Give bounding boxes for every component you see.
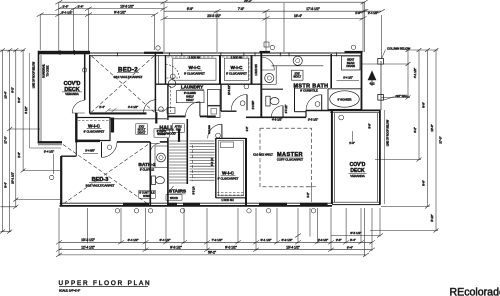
deck (lower) bottom rail	[332, 201, 381, 203]
svg-text:2'-6": 2'-6"	[63, 4, 69, 8]
svg-text:2'-8": 2'-8"	[336, 238, 342, 242]
svg-text:RAILING: RAILING	[208, 125, 211, 134]
svg-text:BED-3: BED-3	[92, 177, 109, 183]
column edge upper right	[380, 61, 382, 110]
closet inner rects	[173, 58, 216, 80]
top exterior wall lines	[90, 52, 362, 54]
top dimension tier A overall 29'-2"	[55, 0, 367, 4]
svg-text:5'-4": 5'-4"	[4, 182, 8, 188]
svg-text:6'-2": 6'-2"	[413, 127, 417, 133]
bed2 left double wall	[84, 53, 86, 100]
svg-text:8'-5 1/2": 8'-5 1/2"	[350, 231, 361, 235]
deck bottom wall	[38, 141, 62, 143]
svg-text:VERANDA: VERANDA	[350, 174, 365, 178]
svg-text:8' CLG/CARPET: 8' CLG/CARPET	[184, 72, 205, 76]
svg-text:W-I-C: W-I-C	[222, 171, 235, 176]
svg-text:SCALE: 1/4"=1'-0": SCALE: 1/4"=1'-0"	[59, 288, 80, 292]
top wall window jambs	[117, 52, 119, 56]
deck door from bed2	[72, 101, 85, 114]
svg-text:3'-4 1/2": 3'-4 1/2"	[343, 76, 353, 80]
wic-bed3 right thick wall	[111, 118, 114, 133]
bottom dimension tiers	[59, 236, 380, 255]
svg-text:10'-3 1/2": 10'-3 1/2"	[81, 238, 94, 242]
svg-text:27'-0": 27'-0"	[4, 136, 8, 143]
deck right wall	[379, 110, 381, 205]
bench box landing	[221, 142, 234, 148]
svg-text:9'-0 1/2": 9'-0 1/2"	[225, 245, 237, 249]
svg-text:8' CLG/CARPET: 8' CLG/CARPET	[218, 177, 239, 181]
svg-text:8' CLG/CARPET: 8' CLG/CARPET	[226, 72, 247, 76]
svg-text:1 ROD SH: 1 ROD SH	[221, 198, 233, 202]
bed3 vault X	[63, 145, 148, 205]
svg-text:2'-0": 2'-0"	[349, 141, 355, 145]
top extension lines	[40, 2, 381, 58]
svg-text:2'-0 5/8": 2'-0 5/8"	[252, 100, 255, 109]
master right wall	[331, 110, 333, 204]
furnace circle	[168, 80, 176, 88]
svg-text:6' SOAKER: 6' SOAKER	[338, 97, 352, 101]
deck left guardrail wall	[38, 51, 40, 144]
bath2 door	[150, 144, 160, 154]
svg-text:8' CLG/TILE: 8' CLG/TILE	[140, 168, 154, 172]
svg-text:WOOD: WOOD	[157, 133, 165, 136]
toilet nook door	[271, 106, 283, 118]
closet divider wall	[219, 55, 221, 84]
svg-text:1 ROD SH: 1 ROD SH	[255, 64, 258, 76]
master coffered ceiling dashed rect	[260, 128, 311, 187]
svg-text:W-I-C: W-I-C	[88, 124, 101, 129]
svg-text:13'-6 1/2": 13'-6 1/2"	[120, 4, 133, 8]
svg-text:7'-8": 7'-8"	[238, 7, 244, 11]
wood box bottom	[166, 195, 182, 201]
closet2 right wall	[251, 55, 253, 84]
svg-text:1 ROD SH: 1 ROD SH	[189, 57, 201, 60]
svg-text:STAIRS: STAIRS	[169, 189, 187, 195]
top dimension tier B	[55, 7, 167, 11]
bottom extension lines	[59, 208, 380, 256]
deck 2-0 dim leader	[352, 131, 354, 142]
svg-text:7'-3 1/2": 7'-3 1/2"	[212, 238, 223, 242]
laundry shelf boxes	[176, 91, 204, 103]
svg-text:CLG 9/12 VAULT: CLG 9/12 VAULT	[253, 153, 273, 157]
mstr bath entry door	[261, 57, 274, 70]
svg-text:FAN: FAN	[176, 129, 181, 132]
svg-text:2'-4": 2'-4"	[99, 105, 105, 109]
line of roof below (left)	[29, 53, 31, 148]
toilet nook wall	[261, 88, 283, 90]
svg-text:13'-6": 13'-6"	[430, 124, 434, 131]
coffer corner dim line	[310, 187, 312, 202]
svg-text:LINE OF ROOF BELOW: LINE OF ROOF BELOW	[387, 119, 390, 146]
svg-text:8' CLG/CARPET: 8' CLG/CARPET	[84, 130, 105, 134]
mstr toilet	[266, 96, 270, 106]
bed3 side dim leader	[53, 154, 55, 174]
top dimension tier C	[164, 9, 385, 13]
bed2 right wall	[154, 53, 156, 113]
laundry cabinet strip	[170, 86, 172, 112]
master entry door	[306, 95, 322, 111]
svg-text:6'-1 1/2": 6'-1 1/2"	[261, 238, 272, 242]
svg-text:8'-4": 8'-4"	[350, 238, 356, 242]
attic fan box	[172, 124, 184, 133]
cov'd deck (lower) top wall	[330, 109, 381, 111]
svg-text:COFF CLG/CARPET: COFF CLG/CARPET	[277, 158, 304, 162]
bath2 counter	[155, 146, 168, 168]
mstr bath bottom wall	[246, 116, 306, 118]
svg-text:UPPER FLOOR PLAN: UPPER FLOOR PLAN	[59, 280, 152, 287]
svg-text:8'-5 1/4: 8'-5 1/4	[210, 157, 214, 166]
svg-text:1 ROD SH: 1 ROD SH	[231, 57, 243, 60]
master wic top/bottom	[216, 137, 246, 139]
svg-text:59'-2": 59'-2"	[208, 251, 216, 255]
wic-bed3 box	[77, 118, 111, 141]
keynote box above mstr bath	[264, 42, 269, 47]
svg-text:8'-3 1/2": 8'-3 1/2"	[282, 238, 293, 242]
svg-text:8'-0": 8'-0"	[17, 97, 21, 103]
mstr bath sink 2	[265, 73, 274, 82]
svg-text:6'-9": 6'-9"	[187, 7, 193, 11]
landing door leaf	[246, 95, 248, 111]
svg-text:8'-9": 8'-9"	[422, 180, 426, 186]
linen box	[154, 129, 170, 137]
stairs treads lower flight	[169, 141, 187, 183]
deck rail posts	[59, 50, 61, 55]
bottom exterior wall	[60, 202, 333, 204]
laundry left wall	[167, 84, 169, 120]
svg-text:3'-4 5/8": 3'-4 5/8"	[85, 148, 95, 152]
bath2 toilet	[152, 176, 156, 185]
svg-text:29'-2": 29'-2"	[244, 0, 252, 3]
svg-text:SHWR: SHWR	[143, 195, 151, 198]
closet1 left wall	[165, 55, 167, 84]
svg-text:5'-0": 5'-0"	[369, 123, 372, 128]
svg-text:5 1/2": 5 1/2"	[24, 106, 28, 113]
window/door tag circles	[50, 45, 356, 213]
svg-text:LAUNDRY: LAUNDRY	[181, 84, 203, 89]
bed3 entry door	[102, 142, 118, 158]
svg-text:W-I-C: W-I-C	[231, 65, 244, 70]
36 wall note leader	[383, 97, 395, 101]
svg-text:2'-4 1/2": 2'-4 1/2"	[368, 11, 378, 15]
mstr bath inner wall at tub	[330, 54, 332, 88]
svg-text:3/12 VAULT/CARPET: 3/12 VAULT/CARPET	[86, 184, 115, 188]
svg-text:SKYLT: SKYLT	[293, 76, 301, 79]
svg-text:10'-4 1/2": 10'-4 1/2"	[286, 245, 299, 249]
master wic door	[208, 124, 222, 138]
svg-text:18'-4": 18'-4"	[294, 14, 302, 18]
svg-text:5'-0 1/2": 5'-0 1/2"	[62, 11, 73, 15]
bed3 left wall	[60, 156, 62, 206]
stairs up arrow diagonal	[167, 186, 174, 195]
column below note leader	[382, 50, 386, 59]
svg-text:DEVLT: DEVLT	[186, 99, 194, 102]
svg-text:BATH-2: BATH-2	[138, 162, 156, 168]
bath right exterior wall	[361, 53, 363, 110]
top dimension tier E	[161, 16, 367, 20]
hall top line	[110, 118, 167, 120]
svg-text:4'-0": 4'-0"	[246, 126, 249, 131]
bath2 right wall lower	[167, 138, 169, 205]
line of roof below (right)	[384, 110, 386, 204]
svg-text:2'-8 1/2": 2'-8 1/2"	[318, 238, 328, 242]
wic-bed3 left wall	[75, 113, 77, 143]
mstr bath left wall	[260, 53, 262, 117]
stairs up arrow line	[192, 145, 194, 181]
svg-text:REcolorado: REcolorado	[450, 287, 500, 296]
svg-text:17'-8 1/2": 17'-8 1/2"	[306, 7, 319, 11]
stairs treads second flight	[190, 141, 215, 180]
bed2 entry door arc	[144, 100, 157, 113]
svg-text:4'-5 1/2": 4'-5 1/2"	[285, 104, 288, 113]
laundry washer dryer stacked	[208, 90, 221, 106]
stair head rail bar	[178, 129, 180, 142]
room label underlines	[87, 70, 328, 194]
svg-text:COLUMN BELOW: COLUMN BELOW	[387, 47, 410, 51]
svg-text:10'-1 1/2": 10'-1 1/2"	[11, 172, 15, 184]
svg-text:4'-1 1/2": 4'-1 1/2"	[413, 68, 417, 78]
svg-text:DEVLT: DEVLT	[138, 132, 146, 135]
bath2 sink	[157, 153, 166, 162]
deck guardrail top band	[38, 51, 90, 55]
shower note box	[139, 190, 156, 198]
svg-text:9'-2": 9'-2"	[11, 87, 15, 93]
svg-text:TO CODE: TO CODE	[47, 65, 50, 76]
svg-text:10'-4": 10'-4"	[4, 91, 8, 98]
svg-text:4:12: 4:12	[369, 82, 375, 86]
svg-text:2'-9": 2'-9"	[355, 11, 361, 15]
master wic inner rect	[218, 141, 243, 196]
svg-text:VERANDA: VERANDA	[65, 92, 79, 96]
svg-text:8'-5 1/4: 8'-5 1/4	[192, 186, 195, 195]
skylt box hall	[136, 124, 148, 135]
closets bottom wall	[155, 83, 261, 85]
svg-text:<36" WALL: <36" WALL	[395, 94, 409, 98]
svg-text:9'-6 1/2": 9'-6 1/2"	[114, 11, 126, 15]
svg-text:2'-6": 2'-6"	[78, 4, 84, 8]
top wall solid segments	[144, 52, 163, 54]
svg-text:12'-4 1/2": 12'-4 1/2"	[81, 245, 94, 249]
svg-text:6'-4 1/2": 6'-4 1/2"	[160, 238, 171, 242]
svg-text:20'-5 1/2": 20'-5 1/2"	[207, 14, 220, 18]
roof pitch arrow	[368, 71, 376, 80]
bed2 vault X	[92, 56, 155, 112]
left dimension lines	[0, 48, 60, 233]
closet1 door arc	[166, 65, 180, 79]
bottom tick marks	[56, 234, 383, 257]
svg-text:2'-6": 2'-6"	[17, 152, 21, 158]
svg-text:4'-0 1/2": 4'-0 1/2"	[128, 105, 138, 109]
svg-text:DRAIN: DRAIN	[346, 64, 355, 68]
hall bottom / bed3 top wall	[117, 141, 150, 143]
bed3 right wall / bath2 left	[149, 142, 151, 205]
svg-text:8'-9": 8'-9"	[422, 102, 426, 108]
svg-text:BED-2: BED-2	[118, 67, 138, 74]
bed2 bottom wall	[90, 112, 147, 114]
shower enclosure	[294, 88, 296, 112]
svg-text:9'-8 1/2": 9'-8 1/2"	[170, 245, 182, 249]
svg-text:W-I-C: W-I-C	[189, 65, 202, 70]
laundry bottom wall	[168, 115, 186, 117]
landing top wall	[221, 110, 237, 112]
skylight box mstr bath	[292, 70, 304, 80]
laundry right wall	[220, 84, 222, 111]
svg-text:WOOD: WOOD	[170, 197, 178, 200]
top dimension tier D	[37, 13, 159, 17]
svg-text:9'-4": 9'-4"	[347, 245, 353, 249]
mstr bath sink 1	[293, 56, 302, 65]
bed2 door jamb bar	[155, 112, 157, 123]
right dimension lines	[370, 48, 439, 233]
stairs center stringer	[186, 119, 188, 184]
seat/bear/drain box	[342, 56, 361, 70]
svg-text:27'-0": 27'-0"	[439, 136, 443, 143]
svg-text:3'-2": 3'-2"	[306, 192, 310, 197]
soaker tub surround	[328, 89, 361, 110]
svg-text:4'-9 1/2": 4'-9 1/2"	[272, 117, 282, 121]
svg-text:3/12 VAULT/CARPET: 3/12 VAULT/CARPET	[114, 75, 143, 79]
svg-text:GUARDRAIL: GUARDRAIL	[43, 63, 46, 78]
svg-text:4'-4 1/2": 4'-4 1/2"	[128, 238, 139, 242]
svg-text:5'-10": 5'-10"	[430, 214, 434, 221]
laundry door	[186, 102, 200, 116]
landing door arc	[231, 95, 247, 111]
svg-text:8' CURB/TILE: 8' CURB/TILE	[300, 88, 318, 92]
mstr bath vanity counter	[272, 65, 324, 67]
bottom wall window sill bands	[123, 203, 149, 207]
tub nook dim line	[337, 80, 360, 82]
svg-text:3'-4 1/2": 3'-4 1/2"	[44, 149, 54, 153]
stairs right wall	[215, 138, 217, 198]
svg-text:10'-0 1/2": 10'-0 1/2"	[228, 85, 231, 95]
soaker tub	[330, 91, 360, 107]
master wic right wall	[245, 138, 247, 206]
svg-text:LINE OF ROOF BELOW: LINE OF ROOF BELOW	[33, 61, 36, 88]
svg-text:3'-5 1/2": 3'-5 1/2"	[308, 117, 318, 121]
